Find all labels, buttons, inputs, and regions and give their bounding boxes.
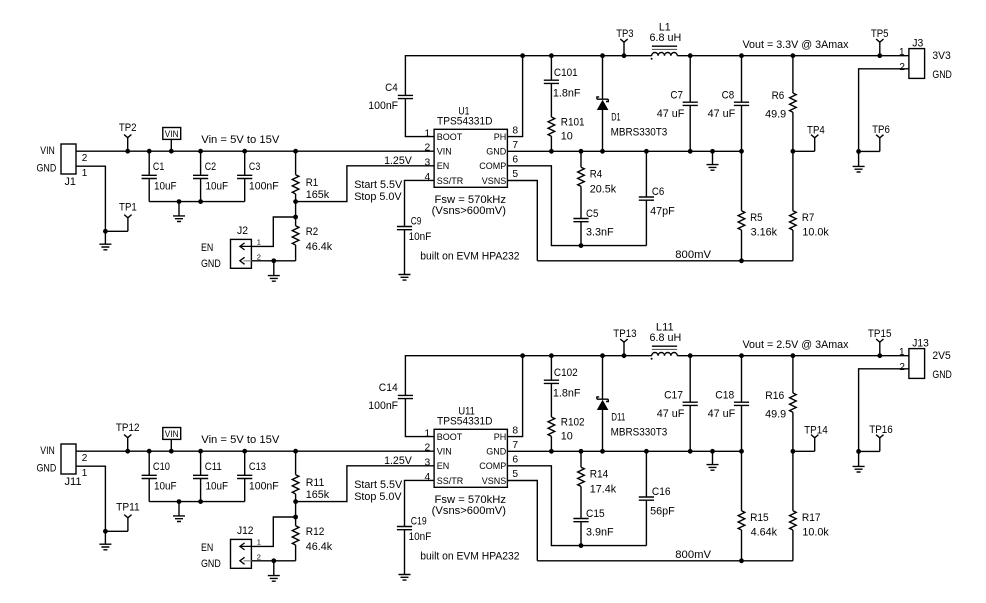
label R15 — [750, 512, 769, 524]
wire COMP pin to compensation — [507, 166, 646, 246]
svg-text:3.3nF: 3.3nF — [586, 227, 614, 239]
svg-text:C4: C4 — [385, 82, 398, 94]
svg-text:10: 10 — [561, 131, 573, 143]
label C5 — [586, 208, 598, 220]
net label 800mV — [675, 549, 712, 561]
value 10 (R101) — [561, 131, 573, 143]
pin label EN — [437, 161, 450, 171]
pin number 1 (J11) — [82, 468, 88, 479]
svg-text:8: 8 — [512, 125, 518, 136]
connector J3 output header — [909, 49, 925, 79]
svg-text:TP12: TP12 — [116, 422, 140, 434]
svg-text:3.16k: 3.16k — [751, 227, 778, 239]
capacitor C5 compensation — [573, 219, 588, 249]
svg-text:1: 1 — [424, 429, 430, 440]
value 10.0k (R7) — [802, 227, 829, 239]
svg-text:8: 8 — [512, 425, 518, 436]
label U1 — [458, 105, 469, 117]
value 165k (R11) — [306, 489, 330, 501]
wire input cap ground bus — [149, 501, 245, 503]
junction GND row snubber — [549, 449, 554, 454]
pin number 1 (J13) — [899, 347, 905, 358]
pin label COMP — [479, 461, 506, 471]
svg-text:1.25V: 1.25V — [384, 455, 412, 467]
svg-text:VSNS: VSNS — [482, 476, 507, 486]
pin number 2 — [424, 443, 430, 454]
svg-text:Vout = 2.5V @ 3Amax: Vout = 2.5V @ 3Amax — [743, 339, 850, 351]
arrow J2 pin 1 — [240, 243, 252, 250]
svg-text:J1: J1 — [65, 176, 76, 188]
pin label PH — [494, 132, 507, 142]
svg-text:TP4: TP4 — [807, 124, 825, 136]
svg-text:TPS54331D: TPS54331D — [437, 116, 493, 128]
label C1 — [153, 161, 164, 173]
value (C5) — [586, 227, 614, 239]
wire junction to ground — [104, 231, 106, 244]
svg-text:100nF: 100nF — [249, 480, 279, 492]
wire switch node rail — [523, 355, 652, 357]
value (C16) — [650, 505, 675, 517]
value 10nF (C19) — [409, 531, 432, 543]
value 10 (R102) — [561, 431, 573, 443]
svg-text:6.8 uH: 6.8 uH — [649, 332, 681, 344]
label R17 — [802, 512, 821, 524]
resistor R5 lower divider — [738, 151, 745, 260]
wire junction to ground — [273, 561, 275, 576]
label TP16 — [869, 424, 893, 436]
pin label SS/TR — [437, 176, 464, 186]
value (R15) — [751, 527, 778, 539]
svg-text:17.4k: 17.4k — [590, 484, 617, 496]
svg-text:4: 4 — [424, 472, 430, 483]
svg-text:R101: R101 — [561, 117, 585, 129]
svg-text:R1: R1 — [306, 177, 318, 189]
svg-text:10nF: 10nF — [409, 231, 432, 243]
svg-text:47 uF: 47 uF — [708, 108, 736, 120]
svg-text:46.4k: 46.4k — [306, 241, 333, 253]
wire divider node down — [295, 202, 297, 217]
svg-text:C14: C14 — [379, 382, 398, 394]
value 10uF (C10) — [154, 480, 177, 492]
svg-text:TP11: TP11 — [116, 501, 140, 513]
value (R4) — [590, 184, 617, 196]
svg-text:R6: R6 — [772, 90, 785, 102]
svg-text:J11: J11 — [65, 476, 82, 488]
pin number 5 — [512, 169, 518, 180]
ground symbol (power GND) — [707, 165, 719, 171]
test point TP16 — [859, 435, 884, 452]
resistor R17 10.0k feedback — [790, 451, 797, 561]
svg-text:TP5: TP5 — [871, 28, 889, 40]
junction — [856, 149, 861, 154]
wire J12 pin 1 branch — [251, 517, 295, 546]
svg-text:1: 1 — [899, 47, 905, 58]
label C14 — [379, 382, 398, 394]
svg-text:R2: R2 — [306, 226, 318, 238]
pin number 8 — [512, 125, 518, 136]
label R11 — [306, 477, 325, 489]
value 47 uF (C18) — [708, 408, 736, 420]
svg-text:Vin = 5V to 15V: Vin = 5V to 15V — [201, 134, 280, 146]
pin number 1 (J3) — [899, 47, 905, 58]
wire R2 bottom to J2 pin 2 — [251, 260, 295, 262]
junction — [856, 449, 861, 454]
label TP14 — [804, 424, 828, 436]
test point TP5 — [876, 39, 883, 58]
wire COMP pin to compensation — [507, 466, 646, 546]
svg-text:165k: 165k — [306, 189, 330, 201]
inductor L11 6.8 uH — [651, 346, 678, 360]
svg-text:R12: R12 — [306, 526, 325, 538]
svg-text:MBRS330T3: MBRS330T3 — [611, 427, 668, 439]
pin number 3 — [424, 457, 430, 468]
value (C6) — [650, 205, 675, 217]
capacitor C2 10uF — [193, 149, 208, 204]
label J1 — [65, 176, 76, 188]
resistor R12 46.4k — [292, 517, 299, 561]
pin number 1 (J12) — [257, 537, 261, 546]
label C18 — [715, 389, 734, 401]
label D11 — [611, 412, 625, 424]
svg-text:C10: C10 — [153, 461, 170, 473]
wire bus to ground — [178, 502, 180, 516]
svg-text:56pF: 56pF — [650, 505, 675, 517]
wire junction to ground — [858, 151, 860, 166]
svg-text:TP13: TP13 — [613, 328, 636, 340]
wire J1 pin 1 to ground — [76, 166, 105, 231]
svg-text:PH: PH — [494, 432, 507, 442]
pin label PH — [494, 432, 507, 442]
svg-text:2: 2 — [257, 553, 261, 562]
capacitor C15 compensation — [573, 519, 588, 548]
svg-text:C8: C8 — [722, 89, 735, 101]
svg-text:TP2: TP2 — [119, 122, 137, 134]
ground symbol (input return) — [99, 544, 111, 550]
value 10uF (C11) — [206, 480, 229, 492]
junction 800mV node — [739, 558, 744, 563]
value 100nF (C4) — [368, 100, 398, 112]
ground symbol (C9) — [399, 275, 411, 281]
pin label SS/TR — [437, 476, 464, 486]
label VIN (J11 pin 2) — [40, 445, 55, 457]
svg-text:49.9: 49.9 — [765, 108, 786, 120]
note built on EVM HPA232 — [420, 550, 519, 562]
value (R14) — [590, 484, 617, 496]
svg-text:C1: C1 — [153, 161, 164, 173]
value 47 uF (C8) — [708, 108, 736, 120]
resistor R16 49.9 feedback top — [790, 353, 797, 451]
junction GND row snubber — [549, 149, 554, 154]
label TPS54331D (U1) — [437, 116, 493, 128]
label R5 — [750, 212, 762, 224]
value 49.9 (R16) — [765, 408, 786, 420]
capacitor C7 47 uF output — [683, 53, 698, 153]
label TP2 — [119, 122, 137, 134]
label EN (J12) — [201, 542, 213, 554]
pin number 4 — [424, 472, 430, 483]
svg-text:VIN: VIN — [40, 445, 55, 457]
wire PH pin to switch node rail — [507, 356, 522, 437]
IC U11 TPS54331D — [434, 429, 507, 487]
svg-text:10uF: 10uF — [206, 180, 229, 192]
svg-text:10uF: 10uF — [154, 180, 177, 192]
test point TP4 — [793, 135, 819, 152]
label TP5 — [871, 28, 889, 40]
wire 800mV feedback line — [537, 260, 793, 262]
pin number 2 (J12) — [257, 553, 261, 562]
ground symbol (J13) — [853, 466, 865, 472]
wire junction to TP11 — [105, 530, 128, 532]
svg-text:C11: C11 — [205, 461, 222, 473]
wire J11 pin 1 to ground — [76, 466, 105, 531]
svg-text:3: 3 — [424, 457, 430, 468]
svg-text:1: 1 — [257, 237, 261, 246]
test point TP13 — [620, 339, 627, 358]
label L1 — [659, 22, 671, 34]
wire J2 pin 1 branch — [251, 217, 295, 246]
resistor R2 46.4k — [292, 217, 299, 261]
svg-text:1: 1 — [82, 168, 88, 179]
test point TP1 — [124, 215, 131, 232]
svg-text:J2: J2 — [237, 225, 248, 237]
value 100nF (C14) — [368, 400, 398, 412]
svg-text:7: 7 — [512, 440, 518, 451]
arrow J2 pin 2 — [240, 257, 252, 264]
arrow J12 pin 1 — [240, 543, 252, 550]
pin number 2 (J3) — [899, 62, 905, 73]
value 165k (R1) — [306, 189, 330, 201]
svg-text:5: 5 — [512, 169, 518, 180]
svg-text:2V5: 2V5 — [932, 350, 950, 362]
svg-text:1.25V: 1.25V — [384, 155, 412, 167]
value 10uF (C1) — [154, 180, 177, 192]
wire VIN input rail — [76, 450, 434, 452]
value 10nF (C9) — [409, 231, 432, 243]
ground symbol (C19) — [399, 575, 411, 581]
svg-text:2: 2 — [899, 362, 905, 373]
svg-text:COMP: COMP — [479, 461, 506, 471]
svg-text:GND: GND — [932, 69, 952, 81]
wire GND row — [507, 150, 741, 152]
pin number 2 (J1) — [82, 153, 88, 164]
pin number 6 — [512, 155, 518, 166]
wire J13 pin 2 to ground — [859, 369, 909, 452]
svg-text:PH: PH — [494, 132, 507, 142]
svg-text:Stop 5.0V: Stop 5.0V — [354, 491, 402, 503]
label C10 — [153, 461, 170, 473]
arrow J12 pin 2 — [240, 557, 252, 564]
pin number 1 (J1) — [82, 168, 88, 179]
label C7 — [670, 89, 683, 101]
label C13 — [249, 461, 266, 473]
wire switch node rail — [523, 55, 652, 57]
resistor R101 10 snubber — [548, 117, 555, 151]
svg-text:C101: C101 — [554, 67, 578, 79]
wire junction to ground — [858, 451, 860, 466]
svg-text:R16: R16 — [765, 390, 784, 402]
svg-text:47 uF: 47 uF — [708, 408, 736, 420]
net label 800mV — [675, 249, 712, 261]
value 6.8 uH (L1) — [649, 32, 681, 44]
resistor R11 165k — [292, 449, 299, 502]
wire divider node to EN pin — [296, 466, 435, 502]
junction — [177, 499, 182, 504]
pin label BOOT — [437, 132, 463, 142]
resistor R7 10.0k feedback — [790, 151, 797, 260]
svg-text:GND: GND — [486, 147, 507, 157]
svg-text:R15: R15 — [750, 512, 769, 524]
label C4 — [385, 82, 398, 94]
wire divider node to EN pin — [296, 166, 435, 202]
svg-text:R4: R4 — [590, 169, 602, 181]
svg-text:GND: GND — [932, 369, 952, 381]
svg-text:6.8 uH: 6.8 uH — [649, 32, 681, 44]
svg-text:2: 2 — [82, 153, 88, 164]
svg-text:C2: C2 — [205, 161, 216, 173]
value MBRS330T3 (D1) — [611, 127, 668, 139]
junction — [103, 229, 108, 234]
test point TP3 — [620, 39, 627, 58]
capacitor C13 100nF — [237, 449, 252, 502]
capacitor C8 47 uF output — [734, 53, 749, 153]
power flag VIN — [163, 428, 181, 454]
resistor R4 compensation — [578, 149, 585, 219]
value (C15) — [586, 527, 614, 539]
svg-text:J13: J13 — [912, 337, 929, 349]
pin label GND — [486, 447, 507, 457]
label C15 — [586, 508, 605, 520]
svg-text:3V3: 3V3 — [932, 50, 950, 62]
net label Vout (Vout = 3.3V @ 3Amax) — [743, 39, 850, 51]
value 46.4k (R2) — [306, 241, 333, 253]
svg-text:VIN: VIN — [165, 129, 179, 139]
svg-text:built on EVM HPA232: built on EVM HPA232 — [420, 250, 519, 262]
label U11 — [458, 405, 475, 417]
svg-text:R5: R5 — [750, 212, 762, 224]
capacitor C14 100nF BOOT — [398, 356, 523, 437]
svg-text:GND: GND — [486, 447, 507, 457]
label C6 — [652, 186, 664, 198]
svg-text:1: 1 — [424, 129, 430, 140]
connector J13 output header — [909, 349, 925, 379]
label EN (J2) — [201, 242, 213, 254]
connector J1 input header — [61, 144, 76, 174]
pin label VSNS — [482, 176, 507, 186]
junction — [177, 199, 182, 204]
svg-text:TP16: TP16 — [869, 424, 893, 436]
value 100nF (C13) — [249, 480, 279, 492]
power flag VIN — [163, 128, 181, 154]
pin label VSNS — [482, 476, 507, 486]
label C101 — [554, 67, 578, 79]
svg-text:47 uF: 47 uF — [657, 408, 685, 420]
note (Vsns>600mV) — [432, 205, 506, 217]
svg-text:R14: R14 — [590, 469, 609, 481]
label TP4 — [807, 124, 825, 136]
svg-text:10uF: 10uF — [206, 480, 229, 492]
pin number 2 (J13) — [899, 362, 905, 373]
svg-text:4.64k: 4.64k — [751, 527, 778, 539]
label 3V3 output — [932, 50, 950, 62]
svg-text:1: 1 — [82, 468, 88, 479]
svg-text:TPS54331D: TPS54331D — [437, 416, 493, 428]
svg-text:C15: C15 — [586, 508, 605, 520]
pin number 1 — [424, 429, 430, 440]
wire junction to ground — [273, 261, 275, 276]
svg-text:47 uF: 47 uF — [657, 108, 685, 120]
svg-text:GND: GND — [37, 163, 57, 175]
wire GND row stub to ground — [710, 449, 715, 465]
svg-text:20.5k: 20.5k — [590, 184, 617, 196]
svg-text:165k: 165k — [306, 489, 330, 501]
wire VIN input rail — [76, 150, 434, 152]
svg-text:VIN: VIN — [40, 145, 55, 157]
pin label VIN — [437, 447, 452, 457]
svg-text:BOOT: BOOT — [437, 432, 463, 442]
label L11 — [656, 322, 674, 334]
pin number 1 — [424, 129, 430, 140]
pin label VIN — [437, 147, 452, 157]
svg-text:6: 6 — [512, 455, 518, 466]
label R14 — [590, 469, 609, 481]
svg-text:47pF: 47pF — [650, 205, 675, 217]
svg-text:4: 4 — [424, 172, 430, 183]
net label 1.25V (EN) — [384, 155, 412, 167]
label R6 — [772, 90, 785, 102]
svg-text:EN: EN — [201, 542, 213, 554]
svg-text:SS/TR: SS/TR — [437, 476, 464, 486]
svg-text:Start 5.5V: Start 5.5V — [354, 479, 403, 491]
value 10.0k (R17) — [802, 527, 829, 539]
svg-text:1.8nF: 1.8nF — [553, 88, 581, 100]
svg-text:C102: C102 — [554, 367, 578, 379]
label TP3 — [616, 28, 633, 40]
svg-text:VIN: VIN — [437, 447, 452, 457]
label C16 — [652, 486, 671, 498]
junction 800mV node — [739, 258, 744, 263]
connector J2 enable jumper — [231, 239, 252, 268]
value (R5) — [751, 227, 778, 239]
label TP13 — [613, 328, 636, 340]
label GND (J3) — [932, 69, 952, 81]
pin number 7 — [512, 140, 518, 151]
svg-text:GND: GND — [37, 463, 57, 475]
wire bus to ground — [178, 202, 180, 216]
junction — [293, 515, 298, 520]
value 46.4k (R12) — [306, 541, 333, 553]
note Stop 5.0V — [354, 491, 402, 503]
label R7 — [802, 212, 814, 224]
label C19 — [411, 515, 427, 527]
svg-text:3.9nF: 3.9nF — [586, 527, 614, 539]
ground symbol (J2) — [268, 276, 280, 282]
svg-text:3: 3 — [424, 157, 430, 168]
label TP1 — [119, 201, 137, 213]
svg-text:C17: C17 — [664, 389, 683, 401]
svg-text:SS/TR: SS/TR — [437, 176, 464, 186]
capacitor C19 10nF soft-start — [397, 480, 434, 574]
svg-text:1: 1 — [257, 537, 261, 546]
capacitor C102 1.8nF snubber — [544, 353, 559, 417]
diode D11 MBRS330T3 schottky — [597, 353, 609, 451]
net label 1.25V (EN) — [384, 455, 412, 467]
svg-text:2: 2 — [257, 253, 261, 262]
label R12 — [306, 526, 325, 538]
capacitor C9 10nF soft-start — [397, 180, 434, 274]
pin label BOOT — [437, 432, 463, 442]
test point TP12 — [124, 435, 131, 454]
svg-text:MBRS330T3: MBRS330T3 — [611, 127, 668, 139]
